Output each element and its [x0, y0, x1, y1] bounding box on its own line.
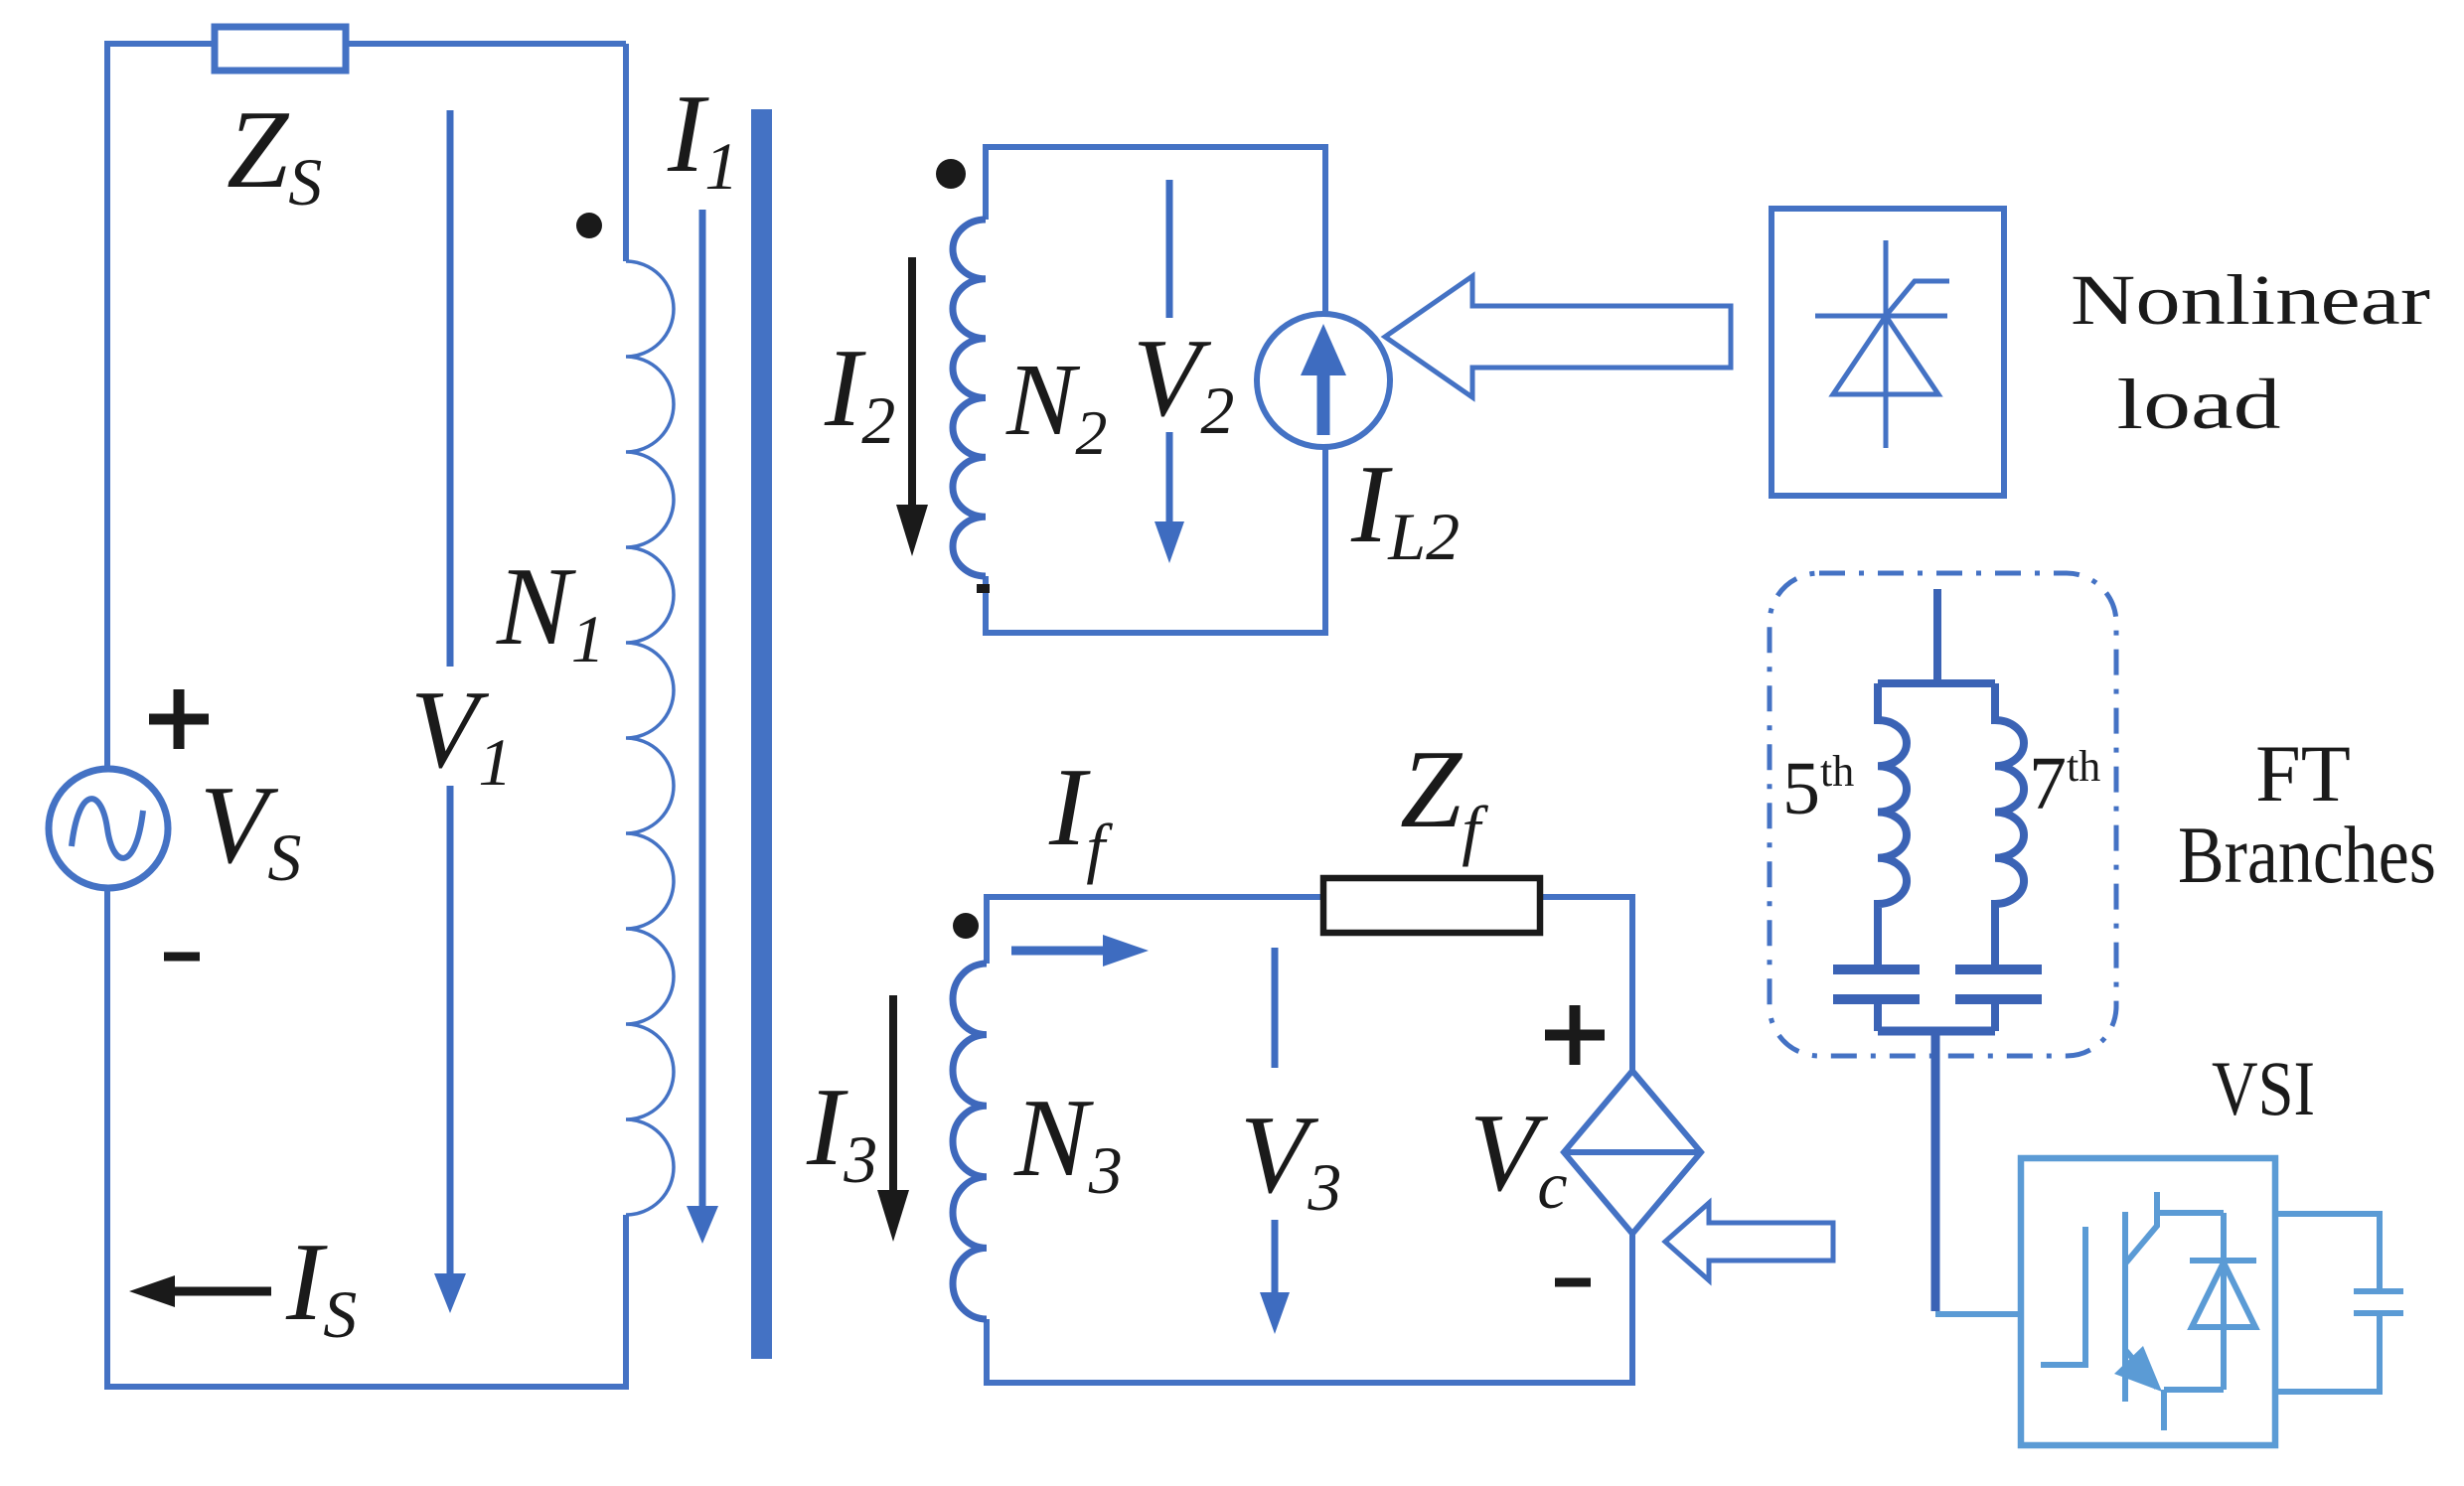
wire N2 loop [986, 147, 1325, 633]
dot polarity N1 [576, 213, 602, 238]
dot polarity N2 [936, 159, 966, 189]
arrow I3 [889, 995, 897, 1192]
resistor Zf [1323, 878, 1540, 933]
svg-text:FT: FT [2255, 728, 2351, 818]
inductor 7th branch [1995, 683, 2024, 965]
current source IL2 [1257, 314, 1390, 447]
resistor ZS [215, 27, 346, 71]
box nonlinear load [1771, 209, 2004, 496]
source VS (AC) [49, 769, 168, 888]
label minus VS [164, 953, 200, 962]
label plus VC [1545, 1005, 1605, 1065]
wire left loop top [107, 44, 626, 768]
box VSI [2021, 1158, 2275, 1445]
wire FT stem top [1933, 589, 1941, 683]
wire left loop bottom [107, 889, 626, 1387]
IGBT Q1 [2041, 1192, 2224, 1430]
arrow V3 [1272, 948, 1279, 1068]
dot polarity N3 [953, 913, 979, 939]
inductor N2 (secondary winding) [953, 220, 986, 576]
arrow I2 [908, 257, 916, 507]
arrow V2 [1166, 180, 1173, 318]
svg-text:Branches: Branches [2178, 810, 2436, 900]
wire FT bottom bar [1878, 1027, 1995, 1036]
label plus VS [149, 689, 209, 749]
arrow If [1011, 947, 1107, 956]
svg-text:VSI: VSI [2212, 1045, 2315, 1131]
svg-text:Nonlinear: Nonlinear [2071, 260, 2430, 340]
inductor N1 (primary winding) [626, 261, 674, 1215]
arrow IS [173, 1287, 271, 1296]
inductor N3 (tertiary winding) [953, 964, 987, 1319]
arrow V1 [447, 110, 454, 667]
diode D1 [2190, 1213, 2256, 1390]
core of transformer [751, 109, 772, 1359]
inductor 5th branch [1878, 683, 1907, 965]
arrow from nonlinear load [1385, 276, 1731, 397]
arrow I1 [699, 210, 706, 1210]
thyristor symbol [1815, 240, 1949, 448]
capacitor 7th branch [1955, 969, 2042, 999]
box FT branches (dash-dot) [1770, 573, 2116, 1056]
wire FT top bar [1878, 679, 1995, 687]
arrow from VSI [1665, 1203, 1833, 1280]
tick mark N2 bottom [977, 584, 990, 593]
wire N3 loop [987, 897, 1632, 1383]
capacitor VSI dc link [2275, 1214, 2403, 1392]
capacitor 5th branch [1833, 969, 1920, 999]
label minus VC [1555, 1278, 1591, 1287]
svg-text:load: load [2117, 365, 2281, 444]
wire stem to VSI [1931, 1031, 1940, 1311]
source VC (controlled, diamond) [1564, 1071, 1701, 1234]
